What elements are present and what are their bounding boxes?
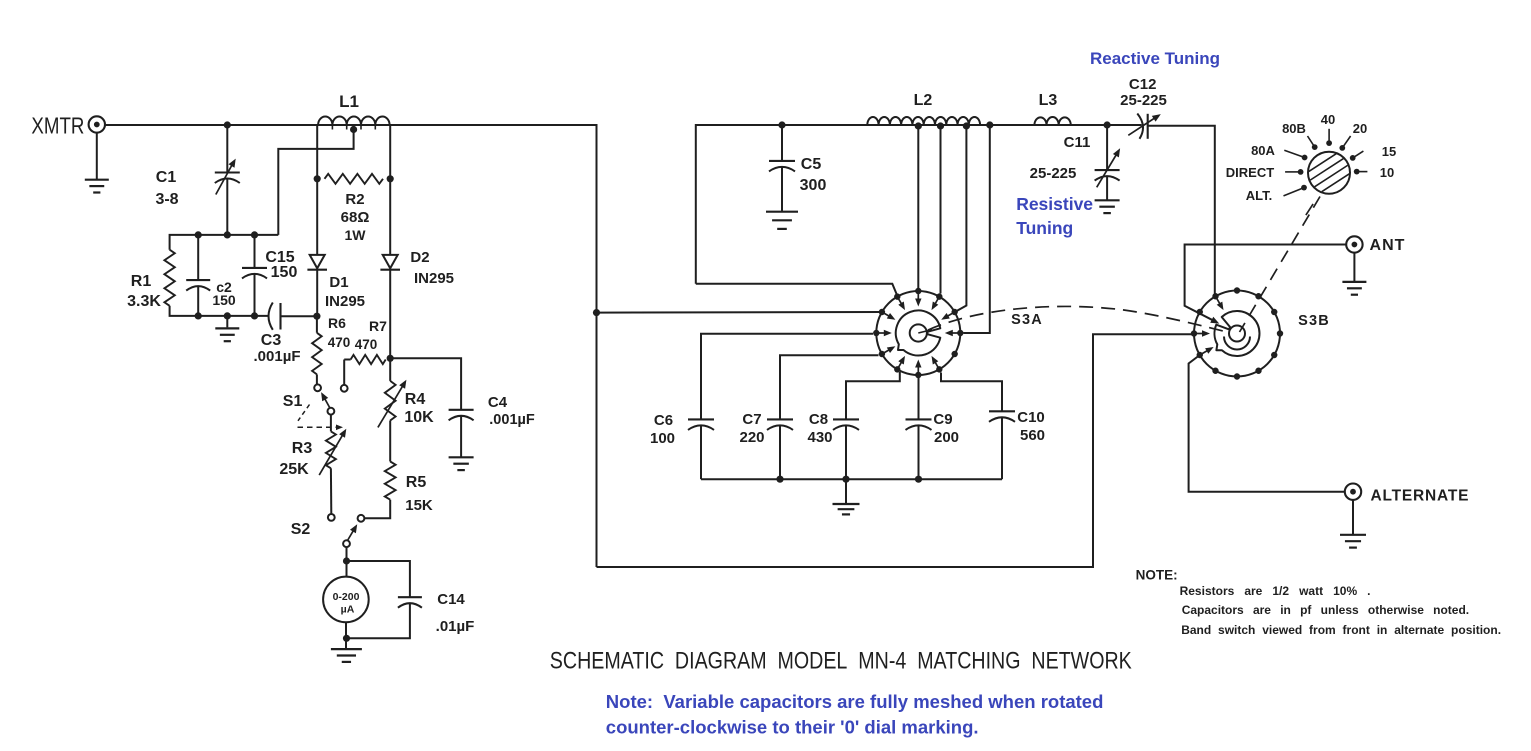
svg-text:C4: C4 [488,394,508,411]
junction C5 top [778,121,785,128]
wire L1 left to D1 branch [316,125,318,255]
knob pointer dash [1306,204,1313,215]
junction meter bottom [343,635,350,642]
S3A contact 240deg [894,366,900,372]
wire L1 tap to upper rail [278,130,353,235]
S3A contact 60deg [936,293,942,299]
svg-text:ALT.: ALT. [1246,188,1272,203]
wire ANT ground stub [1353,253,1355,281]
svg-text:C9: C9 [933,411,952,428]
wire C1 upper lead [226,125,228,172]
svg-text:DIRECT: DIRECT [1226,165,1274,180]
wire C11 to ground [1106,177,1108,200]
svg-text:S2: S2 [291,521,311,538]
svg-text:Note: Variable capacitors are: Note: Variable capacitors are fully mesh… [606,691,1104,712]
wire C1 lower lead [226,179,228,235]
svg-text:C5: C5 [801,156,822,173]
S3B contact 210deg [1197,352,1203,358]
wire bottom bypass to S3B [597,334,1195,567]
inductor L1 [318,116,390,125]
S3A contact 90deg [915,288,921,294]
svg-text:300: 300 [800,177,827,194]
knob position dot 40 [1326,140,1332,146]
junction C8 rail [842,476,849,483]
knob position dot 20 [1339,145,1345,151]
ground at C5 [766,211,798,213]
wire node to C4 [390,358,461,410]
wire C15 upper lead [254,235,256,268]
svg-text:10K: 10K [404,409,434,426]
potentiometer R4 (10K) [389,358,391,381]
wire ALTERNATE ground stub [1352,500,1354,534]
inductor L2 [867,117,980,125]
capacitor C8 (430) [833,418,859,420]
knob position dot 10 [1354,169,1360,175]
resistor R6 [316,316,318,333]
svg-text:Reactive Tuning: Reactive Tuning [1090,49,1220,68]
wire S3B 210deg to ALTERNATE [1189,355,1345,492]
wire D2 to R7 node [389,270,391,359]
ground at lower rail [215,327,239,329]
svg-text:80A: 80A [1251,143,1275,158]
rotary switch S3A rotor [896,310,941,355]
ground at C11 [1095,199,1120,201]
svg-text:3.3K: 3.3K [127,293,161,310]
svg-text:15: 15 [1382,144,1396,159]
svg-text:560: 560 [1020,427,1045,444]
S3A contact 120deg [894,293,900,299]
junction L2 tap 1 [915,122,922,129]
svg-text:220: 220 [739,429,764,446]
dashed gang line S3A to S3B [928,306,1229,332]
resistor R5 (15K) [389,421,391,462]
junction node C1 top [224,121,231,128]
svg-text:SCHEMATIC DIAGRAM MODEL MN-: SCHEMATIC DIAGRAM MODEL MN-4 MATCHING NE… [550,648,1132,675]
switch S2 pole and arm [343,540,350,547]
ground at ANT [1342,281,1366,283]
svg-text:Band switch viewed from fr: Band switch viewed from front in alterna… [1181,623,1501,637]
svg-text:R4: R4 [405,391,426,408]
svg-text:µA: µA [341,604,355,616]
svg-text:D1: D1 [329,274,348,291]
svg-text:R2: R2 [345,191,364,208]
diode D2 [383,255,398,268]
svg-text:.01µF: .01µF [436,618,475,635]
S3B contact 150deg [1197,309,1203,315]
svg-text:C11: C11 [1064,134,1091,151]
wire meter bottom [345,622,347,648]
svg-text:1W: 1W [345,227,367,243]
junction C9 rail [915,476,922,483]
wire C8 bottom [845,426,847,479]
S3B contact 0deg [1277,330,1283,336]
capacitor C7 (220) [767,418,793,420]
svg-text:IN295: IN295 [325,293,365,310]
wire C9 bottom [918,426,920,479]
junction main line to S3A feed [593,309,600,316]
S3B contact 60deg [1255,293,1261,299]
junction L2 tap 2 [937,122,944,129]
svg-text:ALTERNATE: ALTERNATE [1371,488,1470,505]
wire C4 to ground [460,416,462,457]
svg-text:C7: C7 [742,411,761,428]
wire C15 lower lead [254,274,256,316]
knob position dot DIRECT [1298,169,1304,175]
svg-text:25-225: 25-225 [1120,92,1167,109]
wire C12 to S3B 120deg contact [1148,126,1215,294]
svg-text:R6: R6 [328,315,346,331]
capacitor C12 (variable 25-225, series) [1137,114,1143,139]
junction R2 right [387,175,394,182]
capacitor C15 [242,267,267,269]
junction R7/D2/R4/C4 node [387,355,394,362]
switch S2 contact from R3 [328,514,335,521]
capacitor C6 (100) [688,418,714,420]
switch S1 contact from R7 [341,385,348,392]
svg-text:20: 20 [1353,121,1367,136]
switch S1 pole and arm [328,408,335,415]
knob position dot 80B [1312,144,1318,150]
svg-text:D2: D2 [410,249,429,266]
svg-text:10: 10 [1380,165,1394,180]
svg-text:XMTR: XMTR [31,113,84,139]
knob position dot 80A [1302,155,1308,161]
wire ground stub lower rail [226,316,228,328]
svg-text:40: 40 [1321,112,1335,127]
wire upper rail R1/C2/C15 [170,235,279,250]
wire to C14 top [347,561,410,597]
S3A contact 330deg (spare) [951,351,957,357]
svg-text:25-225: 25-225 [1030,165,1077,182]
S3A contact 210deg [879,351,885,357]
junction ground node lower rail [224,312,231,319]
junction C1 bottom [224,231,231,238]
svg-text:L1: L1 [339,92,359,111]
svg-text:C12: C12 [1129,76,1157,93]
svg-text:S3B: S3B [1298,313,1330,329]
ground at XMTR [85,179,109,181]
capacitor C10 (560) [989,410,1015,412]
svg-text:Capacitors are in pf unles: Capacitors are in pf unless otherwise no… [1182,603,1469,617]
junction C15 bottom [251,312,258,319]
junction R2 left [314,175,321,182]
svg-text:S3A: S3A [1011,312,1043,328]
S3B contact 240deg [1212,368,1218,374]
rotary switch S3B rotor [1214,311,1259,356]
wire capacitor-bank bottom rail [701,478,1002,480]
band selector knob circle [1308,152,1350,194]
wire rail ground stub [845,479,847,503]
junction C11 top [1104,121,1111,128]
svg-text:430: 430 [807,429,832,446]
svg-text:R3: R3 [292,440,313,457]
wire C6 bottom [700,426,702,479]
S3A contact 0deg [957,330,963,336]
svg-text:C3: C3 [261,332,282,349]
wire C10 top to S3A 300deg [941,373,1002,412]
wire XMTR ground stub [96,133,98,180]
S3B contact 300deg [1255,368,1261,374]
rotary switch S3A outer ring [876,291,960,375]
resistor R7 [351,355,386,364]
ground at meter [331,648,362,650]
svg-text:150: 150 [271,264,298,281]
resistor R1 [164,250,174,306]
knob position dot 15 [1350,155,1356,161]
capacitor C3 (series .001uF) [269,303,273,330]
svg-text:15K: 15K [405,497,433,514]
junction L2 tap 4 [986,121,993,128]
svg-text:.001µF: .001µF [489,412,535,428]
svg-text:25K: 25K [279,461,309,478]
capacitor C14 (.01uF) [398,596,422,598]
svg-text:200: 200 [934,429,959,446]
capacitor C9 (200) [906,418,932,420]
band selector knob hatching [1309,154,1337,172]
wire tap2 to S3A 60deg [940,126,942,294]
wire C8 top to S3A 240deg [846,372,900,419]
svg-text:IN295: IN295 [414,270,454,287]
dashed gang line knob to S3B [1240,197,1321,333]
wire tap3 to S3A 30deg [956,126,967,312]
S3B contact 90deg [1234,287,1240,293]
svg-text:3-8: 3-8 [155,191,178,208]
svg-text:NOTE:: NOTE: [1136,568,1178,583]
wire C14 bottom to meter bottom [347,604,410,639]
wire C9 top to S3A 270deg [918,376,920,419]
junction C2 top [195,231,202,238]
wire S2 pole to meter [346,547,348,577]
svg-text:150: 150 [212,292,236,308]
svg-text:Resistive: Resistive [1016,194,1093,214]
capacitor C4 (.001uF) [449,409,474,411]
ground at C4 [449,456,474,458]
wire C2 lower lead [197,287,199,316]
ground at capacitor bank [833,503,860,505]
svg-text:0-200: 0-200 [333,591,360,603]
wire main to S3A 150deg contact [597,311,882,314]
potentiometer R3 (25K) [330,415,332,432]
S3B contact 30deg [1271,309,1277,315]
wire C5 box (top feed and S3A 120deg) [696,125,1142,284]
rotary switch S3B outer ring [1194,291,1280,377]
output terminal ANT [1346,236,1362,252]
wire C5 upper lead [781,125,783,161]
svg-text:C10: C10 [1017,409,1045,426]
output terminal ALTERNATE [1345,484,1361,500]
input terminal XMTR [89,116,105,132]
wire C3 to node [281,315,317,317]
capacitor C2 [186,279,210,281]
wire C7 bottom [779,426,781,479]
junction L1 center tap [350,126,357,133]
diode D1 [310,255,325,268]
S3B contact 330deg [1271,352,1277,358]
S3B contact 180deg [1191,330,1197,336]
svg-text:L2: L2 [914,92,933,109]
inductor L3 [1034,117,1070,125]
junction L2 tap 3 [963,122,970,129]
junction C7 rail [776,476,783,483]
svg-text:R5: R5 [406,474,427,491]
switch S1 contact from R6 [314,384,321,391]
wire C7 top to S3A 210deg [780,355,879,419]
wire C2 upper lead [197,235,199,280]
wire C10 bottom [1001,418,1003,479]
wire D1 to node [316,270,318,317]
svg-text:C1: C1 [156,169,177,186]
wire C11 upper lead [1106,125,1108,170]
S3A contact 270deg [915,372,921,378]
junction C2 bottom [195,312,202,319]
capacitor C1 (variable 3-8) [215,171,240,173]
svg-text:ANT: ANT [1370,237,1406,254]
resistor R2 [325,174,384,184]
svg-text:C14: C14 [437,591,465,608]
svg-text:80B: 80B [1282,121,1306,136]
svg-text:Resistors are 1/2 watt 10%: Resistors are 1/2 watt 10% . [1180,584,1371,598]
wire tap1 to S3A top [917,126,919,288]
svg-text:R1: R1 [131,273,152,290]
mechanical link S1-R3 (dashed) [298,405,310,421]
wire C5 to ground [781,167,783,211]
wire R1 bottom lead and lower rail [170,306,270,316]
svg-text:470: 470 [328,335,351,350]
svg-text:L3: L3 [1039,92,1058,109]
junction meter/C14 top [343,557,350,564]
junction C15 top [251,231,258,238]
svg-text:68Ω: 68Ω [341,209,370,226]
S3A contact 150deg [879,309,885,315]
wire L1 right to D2 branch [389,125,391,255]
ground at ALTERNATE [1340,534,1366,536]
junction C3/D1/R6 node [313,313,320,320]
wire main top left: XMTR to L1 to vertical drop [105,125,597,567]
wire tap4 to S3A 0deg [964,125,990,333]
svg-text:C8: C8 [809,411,828,428]
S3B contact 270deg [1234,373,1240,379]
svg-text:100: 100 [650,430,675,447]
switch S2 contact from R5 [358,515,365,522]
svg-text:.001µF: .001µF [254,348,301,365]
S3A contact 180deg [873,330,879,336]
knob position dot ALT. [1301,185,1307,191]
svg-text:C6: C6 [654,412,673,429]
S3A contact 30deg [951,309,957,315]
capacitor C11 (variable 25-225) [1095,169,1120,171]
capacitor C5 (300) [769,160,795,162]
S3A contact 300deg [936,366,942,372]
svg-text:Tuning: Tuning [1016,218,1073,238]
S3B contact 120deg [1212,293,1218,299]
svg-text:R7: R7 [369,318,387,334]
svg-text:470: 470 [355,337,378,352]
wire C6 top to S3A 180deg [701,334,873,420]
svg-text:S1: S1 [283,393,303,410]
wire ANT to S3B 150deg (with arrow) [1185,245,1347,323]
meter M1 0-200uA [323,577,369,623]
svg-text:counter-clockwise to their '0': counter-clockwise to their '0' dial mark… [606,717,979,738]
